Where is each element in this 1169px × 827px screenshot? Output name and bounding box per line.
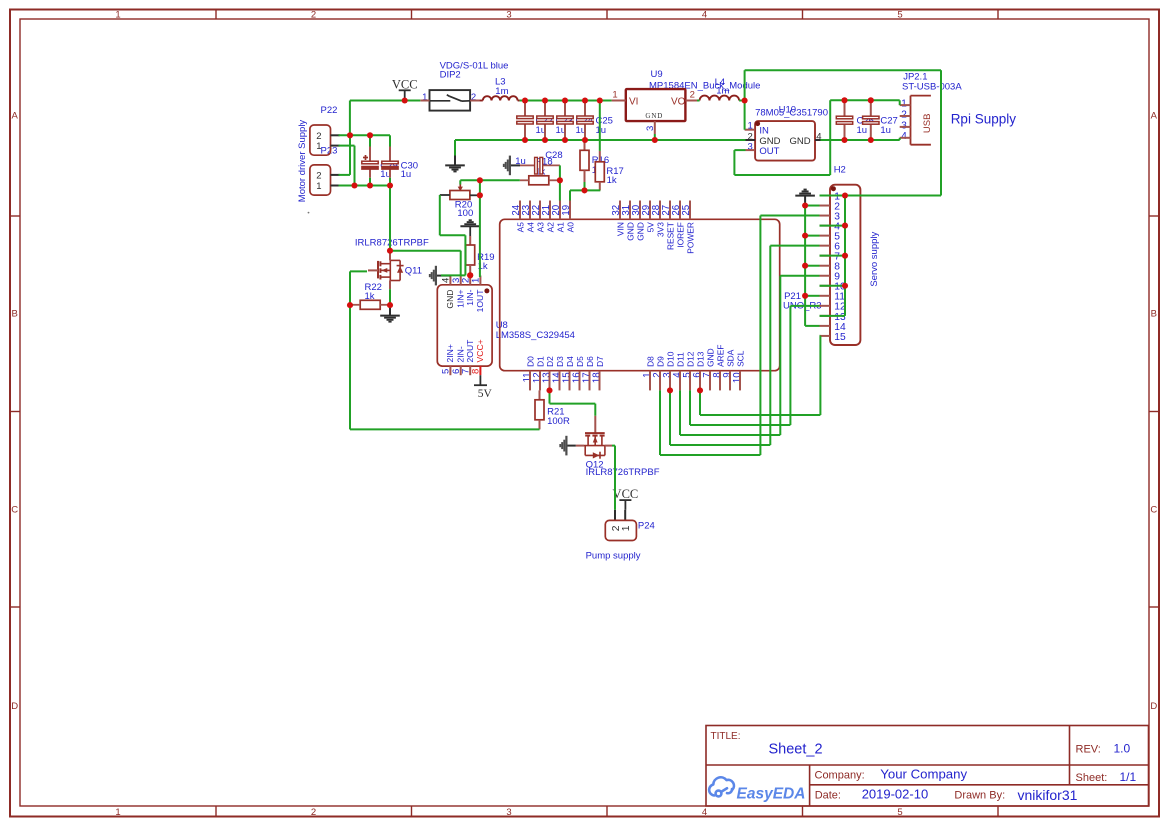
svg-text:Company:: Company:	[815, 769, 865, 781]
svg-text:Date:: Date:	[815, 790, 841, 802]
svg-text:Pump supply: Pump supply	[586, 550, 641, 561]
svg-text:C: C	[11, 504, 18, 515]
svg-text:A: A	[1151, 110, 1158, 121]
svg-text:RESET: RESET	[666, 222, 676, 250]
svg-text:2: 2	[311, 9, 316, 20]
svg-text:Sheet:: Sheet:	[1076, 772, 1108, 784]
svg-text:2: 2	[471, 92, 476, 103]
svg-text:D1: D1	[536, 356, 546, 367]
svg-text:A: A	[12, 110, 19, 121]
svg-text:D4: D4	[565, 356, 575, 367]
svg-text:B: B	[12, 308, 18, 319]
svg-text:D6: D6	[585, 356, 595, 367]
svg-text:D9: D9	[656, 356, 666, 367]
svg-text:1: 1	[621, 525, 632, 531]
svg-text:D13: D13	[696, 351, 706, 367]
svg-text:Your Company: Your Company	[880, 766, 967, 781]
svg-text:GND: GND	[636, 222, 646, 241]
svg-text:3V3: 3V3	[656, 222, 666, 237]
svg-text:D0: D0	[526, 356, 536, 367]
svg-text:4: 4	[702, 807, 707, 818]
svg-text:SDA: SDA	[726, 349, 736, 367]
svg-text:P22: P22	[321, 105, 338, 116]
svg-text:IRLR8726TRPBF: IRLR8726TRPBF	[355, 237, 429, 248]
svg-text:TITLE:: TITLE:	[711, 731, 741, 742]
svg-text:1IN-: 1IN-	[465, 289, 475, 305]
svg-text:1: 1	[901, 99, 907, 110]
svg-text:D10: D10	[666, 351, 676, 367]
svg-text:1u: 1u	[401, 169, 412, 180]
svg-text:VCC: VCC	[613, 487, 639, 501]
svg-text:P24: P24	[638, 521, 655, 532]
svg-text:Servo supply: Servo supply	[869, 231, 880, 286]
svg-text:4: 4	[702, 9, 707, 20]
svg-text:5V: 5V	[646, 222, 656, 233]
svg-text:2IN-: 2IN-	[455, 346, 465, 362]
svg-text:1u: 1u	[857, 125, 868, 136]
svg-text:VIN: VIN	[616, 222, 626, 236]
svg-text:1IN+: 1IN+	[455, 290, 465, 308]
svg-text:SCL: SCL	[736, 350, 746, 367]
svg-text:Motor driver Supply: Motor driver Supply	[297, 120, 308, 203]
svg-text:2IN+: 2IN+	[445, 344, 455, 362]
svg-text:2019-02-10: 2019-02-10	[862, 787, 929, 802]
svg-text:A4: A4	[526, 222, 536, 233]
svg-text:1: 1	[422, 92, 427, 103]
svg-text:15: 15	[834, 332, 846, 343]
svg-text:VO: VO	[671, 97, 686, 108]
svg-text:VI: VI	[629, 97, 638, 108]
svg-text:GND: GND	[789, 136, 810, 147]
svg-text:1: 1	[612, 90, 617, 101]
svg-text:D7: D7	[595, 356, 605, 367]
svg-text:5V: 5V	[478, 388, 493, 400]
svg-text:3: 3	[506, 9, 511, 20]
svg-text:REV:: REV:	[1076, 744, 1101, 756]
svg-text:78M05_C351790: 78M05_C351790	[755, 108, 828, 119]
svg-text:1: 1	[115, 807, 120, 818]
svg-text:A1: A1	[556, 222, 566, 233]
svg-text:1OUT: 1OUT	[475, 289, 485, 313]
svg-text:H2: H2	[834, 165, 846, 176]
svg-text:10: 10	[732, 372, 743, 383]
svg-text:POWER: POWER	[686, 222, 696, 254]
svg-text:2: 2	[901, 109, 907, 120]
svg-text:A3: A3	[536, 222, 546, 233]
svg-text:D3: D3	[555, 356, 565, 367]
svg-text:D5: D5	[575, 356, 585, 367]
svg-text:GND: GND	[706, 348, 716, 367]
svg-text:Drawn By:: Drawn By:	[954, 790, 1005, 802]
svg-text:IOREF: IOREF	[676, 222, 686, 248]
svg-text:GND: GND	[445, 290, 455, 309]
svg-text:2: 2	[316, 171, 321, 182]
svg-text:D2: D2	[545, 356, 555, 367]
svg-text:A0: A0	[566, 222, 576, 233]
svg-text:1k: 1k	[607, 175, 617, 186]
svg-text:LM358S_C329454: LM358S_C329454	[496, 330, 575, 341]
svg-text:4: 4	[901, 131, 907, 142]
svg-text:USB: USB	[922, 114, 933, 134]
svg-text:Q11: Q11	[405, 265, 422, 276]
svg-text:2: 2	[611, 525, 622, 531]
svg-text:ST-USB-003A: ST-USB-003A	[902, 81, 962, 92]
svg-text:VCC+: VCC+	[475, 339, 485, 362]
svg-text:Rpi Supply: Rpi Supply	[951, 111, 1017, 126]
svg-text:1u: 1u	[880, 125, 891, 136]
svg-text:AREF: AREF	[716, 345, 726, 367]
svg-text:1.0: 1.0	[1114, 742, 1131, 756]
svg-text:1: 1	[316, 181, 321, 192]
svg-text:GND: GND	[626, 222, 636, 241]
svg-text:100: 100	[457, 208, 473, 219]
svg-text:D8: D8	[646, 356, 656, 367]
svg-text:3: 3	[506, 807, 511, 818]
svg-text:VCC: VCC	[392, 77, 418, 91]
svg-text:5: 5	[897, 807, 902, 818]
svg-text:2: 2	[311, 807, 316, 818]
svg-text:B: B	[1151, 308, 1157, 319]
svg-text:18: 18	[592, 372, 603, 383]
svg-text:A5: A5	[516, 222, 526, 233]
svg-text:D: D	[1150, 701, 1157, 712]
svg-text:1/1: 1/1	[1120, 770, 1137, 784]
svg-text:3: 3	[901, 120, 907, 131]
svg-text:vnikifor31: vnikifor31	[1018, 787, 1078, 803]
svg-text:D11: D11	[676, 352, 686, 367]
svg-text:5: 5	[897, 9, 902, 20]
svg-text:DIP2: DIP2	[440, 70, 461, 81]
svg-text:C: C	[1150, 504, 1157, 515]
svg-text:D12: D12	[686, 351, 696, 367]
svg-text:U9: U9	[651, 69, 663, 80]
svg-text:1: 1	[115, 9, 120, 20]
svg-text:GND: GND	[645, 112, 663, 120]
svg-text:IN: IN	[759, 125, 769, 136]
svg-text:2OUT: 2OUT	[465, 339, 475, 363]
svg-text:1m: 1m	[716, 85, 729, 96]
svg-text:Sheet_2: Sheet_2	[769, 742, 823, 758]
svg-text:IRLR8726TRPBF: IRLR8726TRPBF	[586, 467, 660, 478]
svg-text:A2: A2	[546, 222, 556, 233]
svg-text:100R: 100R	[547, 416, 570, 427]
svg-text:1m: 1m	[495, 86, 508, 97]
svg-text:EasyEDA: EasyEDA	[737, 785, 806, 802]
svg-text:OUT: OUT	[759, 146, 779, 157]
svg-text:D: D	[11, 701, 18, 712]
